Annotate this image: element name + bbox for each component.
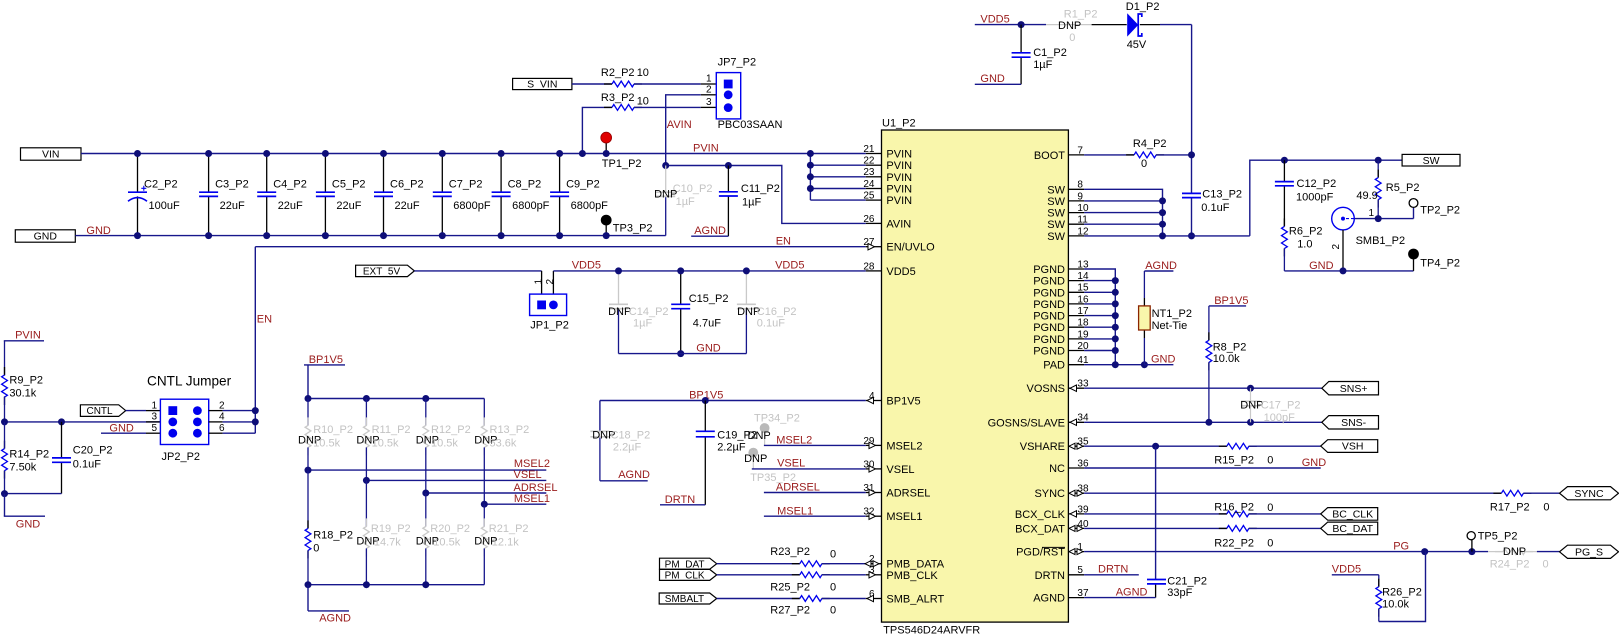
svg-text:PVIN: PVIN [886,160,912,172]
capacitor C11_P2 1uF [719,166,780,237]
resistor R21_P2 DNP 12.1k [474,518,528,584]
net label GND (VDD5 caps) [696,343,721,355]
svg-text:SW: SW [1423,155,1440,167]
svg-text:PGD/RST: PGD/RST [1016,547,1065,559]
svg-text:BP1V5: BP1V5 [309,354,343,366]
svg-text:R9_P2: R9_P2 [9,375,43,387]
net label GND (input rail) [86,225,111,237]
net label EN (vertical) [257,313,272,325]
svg-text:R12_P2: R12_P2 [431,424,471,436]
wire GOSNS to SNS- [1084,419,1322,426]
wire BCX_DAT row [1084,526,1321,532]
wire JP7 pin2 to AVIN node [666,95,717,166]
svg-text:0: 0 [1267,537,1273,549]
svg-text:BCX_DAT: BCX_DAT [1015,523,1065,535]
op-amp U1 TPS546D24ARVFR body [882,118,1069,636]
resistor R20_P2 DNP 10.5k [416,518,470,584]
capacitor C4_P2 22uF [257,150,307,239]
net label GND (JP2 pin5) [101,422,160,434]
svg-text:7: 7 [1077,145,1083,156]
svg-text:R22_P2: R22_P2 [1214,537,1254,549]
port PM_DAT [660,558,717,570]
svg-text:SNS+: SNS+ [1340,383,1368,395]
net label MSEL1 (network) [514,493,550,505]
wire MSEL1 stub [764,505,866,517]
svg-text:CNTL Jumper: CNTL Jumper [147,374,232,389]
svg-text:GND: GND [109,422,133,434]
svg-text:1000pF: 1000pF [1296,191,1334,203]
svg-text:0: 0 [830,581,836,593]
svg-text:10.0k: 10.0k [1382,599,1409,611]
wire CNTL to JP2 pin1 [126,410,161,412]
net label GND (PAD) [1144,354,1175,366]
svg-text:PVIN: PVIN [886,172,912,184]
wire SW to output [1250,157,1402,236]
svg-text:100pF: 100pF [1264,412,1295,424]
svg-text:22: 22 [863,156,875,167]
capacitor C1_P2 1uF [1012,25,1067,85]
capacitor C18_P2 DNP 2.2uF [590,401,650,481]
svg-text:TP4_P2: TP4_P2 [1420,257,1460,269]
svg-text:C18_P2: C18_P2 [611,430,651,442]
resistor R3_P2 10 [601,92,649,110]
svg-text:0: 0 [830,549,836,561]
svg-text:SW: SW [1047,208,1065,220]
svg-text:VSEL: VSEL [886,464,914,476]
svg-text:0: 0 [1267,502,1273,514]
svg-text:DNP: DNP [744,453,767,465]
capacitor C12_P2 1000pF [1275,160,1336,226]
net label BP1V5 (C19) [689,389,723,401]
svg-text:SW: SW [1047,184,1065,196]
net label AGND (C11) [691,225,728,237]
svg-text:53.6k: 53.6k [490,437,517,449]
svg-text:ADRSEL: ADRSEL [776,482,820,494]
svg-text:AGND: AGND [694,225,726,237]
net label GND (NC) [1302,457,1327,469]
svg-text:EN/UVLO: EN/UVLO [886,242,935,254]
resistor R25_P2 0 [717,572,866,594]
port PG_S [1560,545,1619,558]
port SMBALT [659,593,717,605]
svg-text:NC: NC [1049,463,1065,475]
svg-text:BCX_CLK: BCX_CLK [1015,509,1066,521]
svg-text:22uF: 22uF [278,200,303,212]
svg-text:TP3_P2: TP3_P2 [613,223,653,235]
svg-text:25: 25 [863,191,875,202]
svg-text:R17_P2: R17_P2 [1490,501,1530,513]
svg-text:0: 0 [1543,558,1549,570]
wire MSEL2 row [305,467,547,529]
resistor R19_P2 DNP 14.7k [356,518,410,584]
svg-text:PVIN: PVIN [15,330,41,342]
svg-text:BP1V5: BP1V5 [1214,295,1248,307]
wire SYNC row [1084,490,1559,496]
port PM_CLK [660,569,717,581]
svg-text:C17_P2: C17_P2 [1261,399,1301,411]
resistor R9_P2 30.1k [2,341,43,422]
svg-text:R15_P2: R15_P2 [1214,454,1254,466]
port EXT_5V [356,265,415,277]
svg-text:45V: 45V [1127,39,1147,51]
wire EXT_5V to JP1 pin1 [414,271,541,294]
wire ADRSEL row [422,490,546,527]
wire R5 to SMB1 pin1 node [1354,215,1413,222]
net label AGND (NT1) [1144,260,1177,272]
svg-text:C3_P2: C3_P2 [215,179,249,191]
svg-text:1: 1 [533,279,544,285]
net label EN (near U1) [776,236,791,248]
svg-text:PGND: PGND [1033,346,1065,358]
svg-text:R18_P2: R18_P2 [313,529,353,541]
svg-text:SYNC: SYNC [1574,488,1604,500]
svg-text:AGND: AGND [319,613,351,625]
svg-text:GND: GND [34,231,58,243]
svg-text:1: 1 [1369,208,1375,219]
svg-text:2: 2 [1331,244,1342,250]
svg-text:4: 4 [219,412,225,423]
svg-text:C8_P2: C8_P2 [508,179,542,191]
net label AGND (C18) [600,469,650,481]
wire S_VIN to R2 [572,83,612,85]
svg-text:ADRSEL: ADRSEL [886,488,930,500]
svg-text:SMB1_P2: SMB1_P2 [1356,235,1406,247]
svg-text:7.50k: 7.50k [9,461,36,473]
svg-text:SW: SW [1047,231,1065,243]
svg-text:VDD5: VDD5 [572,260,601,272]
svg-text:VSEL: VSEL [777,458,805,470]
svg-text:BC_CLK: BC_CLK [1332,509,1373,521]
svg-text:6800pF: 6800pF [453,200,491,212]
svg-text:PG_S: PG_S [1575,546,1603,558]
wire MSEL2 stub [764,435,866,447]
svg-text:10.5k: 10.5k [372,437,399,449]
net label GND (divider) [4,494,45,531]
resistor R10_P2 DNP 10.5k [298,399,353,471]
svg-text:PGND: PGND [1033,311,1065,323]
svg-text:DRTN: DRTN [1035,570,1065,582]
svg-text:PBC03SAAN: PBC03SAAN [718,119,783,131]
title CNTL Jumper [147,374,232,389]
svg-text:NT1_P2: NT1_P2 [1152,308,1192,320]
svg-text:SW: SW [1047,219,1065,231]
net label BP1V5 (R8) [1209,295,1249,307]
port SW [1402,154,1460,166]
capacitor C14_P2 DNP 1uF [608,267,668,353]
wire network bottom rail [305,581,485,588]
svg-text:AVIN: AVIN [886,218,911,230]
svg-text:R3_P2: R3_P2 [601,92,635,104]
svg-text:AVIN: AVIN [667,119,692,131]
svg-text:3: 3 [151,412,157,423]
svg-text:0: 0 [830,605,836,617]
svg-text:R27_P2: R27_P2 [770,605,810,617]
wire VSEL row [363,477,546,527]
svg-text:GND: GND [696,343,721,355]
svg-text:VIN: VIN [42,149,60,161]
svg-text:R1_P2: R1_P2 [1064,8,1098,20]
svg-text:C2_P2: C2_P2 [144,179,178,191]
svg-text:PGND: PGND [1033,322,1065,334]
net label BP1V5 (network) [304,354,345,366]
wire SW bundle [1084,189,1250,239]
svg-text:PGND: PGND [1033,287,1065,299]
svg-text:R16_P2: R16_P2 [1214,502,1254,514]
svg-text:0: 0 [1543,501,1549,513]
svg-text:PGND: PGND [1033,299,1065,311]
svg-text:23: 23 [863,167,875,178]
svg-text:GND: GND [1302,457,1327,469]
test point TP4_P2 [1408,249,1460,271]
svg-text:1: 1 [706,74,712,85]
svg-text:9: 9 [1077,191,1083,202]
svg-text:AGND: AGND [1033,593,1065,605]
svg-text:1µF: 1µF [633,318,652,330]
resistor R26_P2 10.0k [1376,552,1426,622]
svg-text:VOSNS: VOSNS [1026,383,1065,395]
connector JP1_P2 [530,279,569,332]
svg-text:MSEL1: MSEL1 [514,493,550,505]
resistor R16_P2 0 labels [1214,502,1273,514]
wire PVIN pin bundle [807,150,866,200]
svg-text:1µF: 1µF [742,196,761,208]
wire divider mid node [1,418,160,425]
svg-text:2: 2 [706,85,712,96]
net label VDD5 (left) [572,260,601,272]
connector JP2_P2 [160,399,208,463]
svg-text:BP1V5: BP1V5 [886,396,920,408]
svg-text:VSEL: VSEL [514,469,542,481]
diode D1_P2 45V [1092,1,1192,51]
test point TP2_P2 [1409,199,1460,219]
svg-text:MSEL2: MSEL2 [776,435,812,447]
svg-text:D1_P2: D1_P2 [1126,1,1160,13]
net label VDD5 (boot) [975,13,1021,25]
net label DRTN (C19) [660,494,705,506]
svg-text:1µF: 1µF [676,196,695,208]
svg-text:R25_P2: R25_P2 [770,581,810,593]
svg-text:PG: PG [1393,540,1409,552]
wire ADRSEL stub [764,482,866,494]
resistor R8_P2 10.0k [1206,306,1246,422]
svg-text:12.1k: 12.1k [492,537,519,549]
svg-text:30.1k: 30.1k [9,388,36,400]
svg-text:R4_P2: R4_P2 [1133,138,1167,150]
svg-text:DRTN: DRTN [1098,564,1128,576]
svg-text:1.0: 1.0 [1297,239,1312,251]
test point TP34_P2 DNP [748,412,800,445]
port BC_DAT [1321,522,1378,535]
svg-text:2.2µF: 2.2µF [613,441,642,453]
net label GND (C1) [975,73,1021,85]
svg-text:GND: GND [1151,354,1176,366]
svg-text:ADRSEL: ADRSEL [514,482,558,494]
svg-text:EN: EN [257,313,272,325]
wire PGD row [1084,548,1488,555]
wire BCX_CLK row [1084,511,1321,517]
wire divider bottom [1,490,62,497]
svg-text:R24_P2: R24_P2 [1490,558,1530,570]
svg-text:C21_P2: C21_P2 [1167,575,1207,587]
svg-text:2: 2 [545,279,556,285]
connector JP7_P2 PBC03SAAN [716,57,782,131]
test point TP35_P2 DNP [744,448,796,484]
svg-text:14.7k: 14.7k [374,537,401,549]
svg-text:TP2_P2: TP2_P2 [1420,205,1460,217]
resistor R5_P2 49.9 [1356,160,1419,218]
resistor R23_P2 0 [717,546,866,566]
svg-text:2.2µF: 2.2µF [717,441,746,453]
svg-text:0: 0 [1069,32,1075,44]
capacitor C13_P2 0.1uF [1182,151,1242,239]
capacitor C10_P2 DNP 1uF [654,166,712,236]
svg-text:28: 28 [863,261,875,272]
svg-text:TP34_P2: TP34_P2 [754,412,800,424]
svg-text:PVIN: PVIN [886,149,912,161]
wire VSEL stub [752,458,866,470]
svg-text:VDD5: VDD5 [775,260,804,272]
svg-text:6: 6 [219,423,225,434]
svg-text:R26_P2: R26_P2 [1382,587,1422,599]
svg-text:10.5k: 10.5k [433,537,460,549]
resistor R15_P2 0 labels [1214,454,1273,466]
svg-text:10: 10 [637,96,649,108]
resistor R18_P2 0 [305,520,353,584]
capacitor C5_P2 22uF [316,150,366,239]
U1 right pins [988,145,1089,604]
resistor R11_P2 DNP 10.5k [356,399,410,481]
svg-text:TP5_P2: TP5_P2 [1478,530,1518,542]
test point TP1_P2 [601,132,642,170]
svg-text:6800pF: 6800pF [571,200,609,212]
svg-text:24: 24 [863,179,875,190]
net label PVIN [693,143,719,155]
wire VOSNS to SNS+ [1084,385,1322,392]
svg-text:5: 5 [151,423,157,434]
svg-text:EXT_5V: EXT_5V [363,267,401,278]
wire diode to BOOT node [1191,25,1193,155]
wire JP2 pins 2/4/6 to EN [209,407,259,433]
net label MSEL2 (network) [514,458,550,470]
svg-text:0: 0 [313,542,319,554]
pin numbers JP2 left [151,400,157,434]
svg-text:C4_P2: C4_P2 [273,179,307,191]
svg-text:VSH: VSH [1342,441,1364,453]
svg-text:C5_P2: C5_P2 [332,179,366,191]
capacitor C2_P2 100uF [128,150,180,239]
wire snubber GND rail [1284,267,1413,274]
svg-text:10.5k: 10.5k [313,437,340,449]
svg-text:R11_P2: R11_P2 [372,424,411,436]
svg-text:6800pF: 6800pF [512,200,550,212]
net label VSEL (network) [514,469,542,481]
wire MSEL1 row [481,501,547,527]
svg-text:100uF: 100uF [149,200,180,212]
svg-text:22uF: 22uF [336,200,361,212]
capacitor C6_P2 22uF [374,150,424,239]
svg-text:R20_P2: R20_P2 [430,523,470,535]
svg-text:C20_P2: C20_P2 [73,444,113,456]
svg-text:JP1_P2: JP1_P2 [530,319,569,331]
port SYNC [1560,487,1619,500]
capacitor C16_P2 DNP 0.1uF [737,267,797,353]
svg-text:22uF: 22uF [220,200,245,212]
svg-text:R19_P2: R19_P2 [371,523,411,535]
svg-text:AGND: AGND [1116,586,1148,598]
svg-text:2: 2 [219,400,225,411]
wire GND rail [75,235,665,237]
svg-text:PVIN: PVIN [693,143,719,155]
svg-text:1: 1 [151,400,157,411]
capacitor C21_P2 33pF [1147,446,1207,599]
svg-text:DNP: DNP [1503,546,1526,558]
svg-text:PM_CLK: PM_CLK [665,571,705,582]
svg-text:49.9: 49.9 [1356,190,1377,202]
svg-text:26: 26 [863,214,875,225]
wire DRTN stub [1084,564,1139,576]
svg-text:3: 3 [706,97,712,108]
resistor R4_P2 0 [1084,138,1191,170]
svg-text:TPS546D24ARVFR: TPS546D24ARVFR [883,625,980,636]
capacitor C19_P2 2.2uF [696,401,757,505]
svg-text:PAD: PAD [1043,360,1065,372]
svg-text:0: 0 [1141,158,1147,170]
capacitor C15_P2 4.7uF [671,267,728,357]
resistor R13_P2 DNP 53.6k [474,399,529,505]
svg-text:C14_P2: C14_P2 [629,306,669,318]
svg-text:BOOT: BOOT [1034,150,1065,162]
svg-text:C15_P2: C15_P2 [689,293,729,305]
resistor R6_P2 1.0 [1282,218,1323,271]
svg-text:R8_P2: R8_P2 [1213,341,1247,353]
net label VDD5 (R26) [1332,564,1379,576]
net label PG [1393,540,1409,552]
svg-text:0.1uF: 0.1uF [73,459,101,471]
svg-text:MSEL2: MSEL2 [886,440,922,452]
wire PGND bus [1084,269,1148,368]
svg-text:5: 5 [1077,565,1083,576]
svg-text:R5_P2: R5_P2 [1386,182,1420,194]
svg-text:AGND: AGND [1145,260,1177,272]
svg-text:GOSNS/SLAVE: GOSNS/SLAVE [988,417,1065,429]
svg-text:R14_P2: R14_P2 [9,448,49,460]
resistor R17_P2 0 labels [1490,501,1550,513]
net label AVIN [667,119,692,131]
svg-text:21: 21 [863,144,875,155]
wire AVIN horizontal [662,162,866,223]
svg-text:C6_P2: C6_P2 [390,179,424,191]
svg-text:MSEL1: MSEL1 [886,511,922,523]
svg-text:PGND: PGND [1033,276,1065,288]
svg-text:C10_P2: C10_P2 [673,183,713,195]
svg-text:C13_P2: C13_P2 [1202,189,1242,201]
resistor R27_P2 0 [717,596,866,617]
svg-text:JP7_P2: JP7_P2 [718,57,757,69]
port VSH [1321,440,1378,453]
svg-text:BC_DAT: BC_DAT [1332,523,1373,535]
svg-text:SMB_ALRT: SMB_ALRT [886,594,944,606]
svg-text:C11_P2: C11_P2 [741,183,780,195]
svg-text:22uF: 22uF [395,200,420,212]
svg-text:PM_DAT: PM_DAT [665,559,705,570]
svg-text:VDD5: VDD5 [1332,564,1361,576]
svg-text:SMBALT: SMBALT [665,594,704,605]
svg-text:10.5k: 10.5k [431,437,458,449]
wire R2 to JP7 pin1 [634,83,716,85]
wire AGND pin37 [1084,586,1156,598]
svg-text:PVIN: PVIN [886,195,912,207]
svg-text:VDD5: VDD5 [886,266,915,278]
